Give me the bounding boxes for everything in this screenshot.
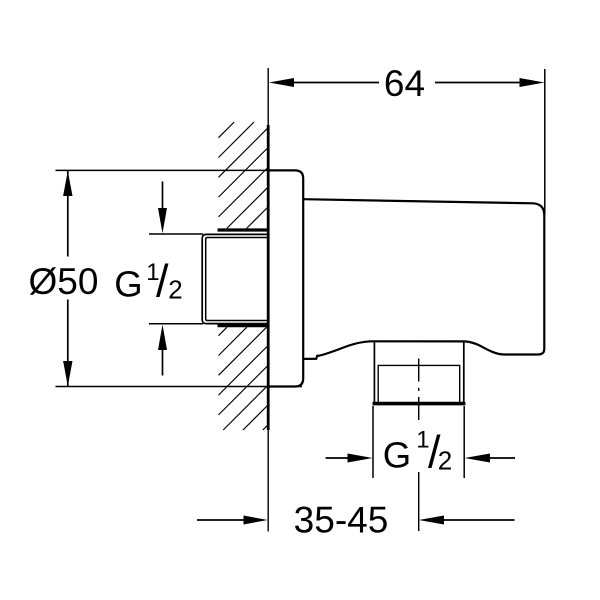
outlet nipple bottom (thick)	[373, 402, 466, 406]
dim G1/2 inlet: bottom extension line	[149, 323, 203, 325]
dim G1/2 outlet: left extension line	[372, 406, 374, 478]
dim G1/2 inlet: upper arrow (down)	[158, 208, 167, 233]
body outline	[303, 199, 544, 359]
dim 64: right arrow	[520, 78, 545, 87]
svg-text:64: 64	[384, 63, 425, 104]
dim G1/2 inlet: top extension line	[149, 233, 203, 235]
dim G1/2 outlet: left line + arrow	[326, 457, 349, 459]
dim 64: left arrow	[269, 78, 294, 87]
wall line thick section	[267, 125, 270, 430]
dim 35-45: left line + arrow	[197, 519, 245, 521]
dim G1/2 inlet: lower dimension line	[162, 350, 164, 376]
dim 64: dimension line	[294, 82, 379, 84]
dim G1/2 outlet: right extension line	[463, 406, 465, 478]
wall hole edge bottom (thick)	[218, 324, 268, 327]
dim G1/2 outlet: right line + arrow	[490, 457, 516, 459]
dim G1/2 inlet: upper dimension line	[162, 182, 164, 209]
dim 35-45: right line + arrow	[444, 519, 515, 521]
svg-text:Ø50: Ø50	[29, 261, 99, 302]
outlet center line (dash-dot)	[418, 359, 420, 532]
svg-text:2: 2	[168, 274, 182, 304]
dim D50: bottom arrow	[63, 361, 72, 386]
svg-text:/: /	[156, 256, 169, 307]
outlet nipple right edge	[463, 341, 465, 403]
svg-text:2: 2	[438, 445, 452, 475]
outlet nipple inner thread lines	[378, 365, 460, 403]
dim D50: bottom extension line	[56, 386, 303, 388]
svg-text:35-45: 35-45	[294, 500, 389, 541]
inlet thread inner profile	[206, 238, 268, 321]
flange plate	[268, 170, 303, 386]
svg-text:G: G	[114, 263, 142, 304]
dim D50: top extension line	[56, 169, 268, 171]
dim D50: dimension line	[67, 171, 69, 257]
hatching lower band	[219, 327, 268, 430]
inlet thread outer profile	[202, 234, 268, 323]
dim G1/2 inlet: lower arrow (up)	[158, 325, 167, 351]
wall hole edge top (thick)	[218, 228, 268, 231]
wall line	[267, 68, 269, 532]
dim D50: top arrow	[63, 171, 72, 196]
dim 64: right extension line	[544, 69, 546, 214]
outlet nipple left edge	[373, 341, 375, 403]
hatching upper band	[219, 122, 268, 228]
svg-text:G: G	[383, 435, 411, 476]
